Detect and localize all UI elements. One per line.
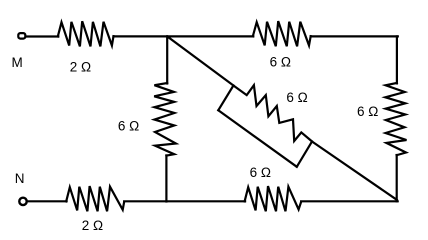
- wire node A diagonal to P1: [167, 36, 233, 85]
- wire R6 to bottom-right corner: [301, 200, 398, 202]
- svg-text:2 Ω: 2 Ω: [70, 60, 91, 75]
- resistor R2 2ohm bottom-left: [66, 186, 124, 211]
- wire node A down to R4: [166, 36, 168, 83]
- svg-text:M: M: [12, 55, 23, 70]
- wire R2 to node B and on to R6: [124, 200, 245, 202]
- svg-text:6 Ω: 6 Ω: [118, 118, 139, 133]
- svg-text:N: N: [15, 171, 25, 186]
- svg-text:6 Ω: 6 Ω: [286, 90, 307, 105]
- wire stub P4 to P3: [297, 142, 312, 167]
- resistor R5 6ohm diagonal: [233, 85, 312, 141]
- resistor R3 6ohm top: [253, 21, 311, 46]
- resistor R6 6ohm bottom: [245, 186, 302, 211]
- wire P2 to P4 lower diagonal: [218, 110, 296, 167]
- wire stub P1 to P2: [218, 86, 233, 111]
- wire R7 to bottom-right corner: [396, 155, 398, 201]
- terminal N: [19, 198, 26, 205]
- wire R3 to top-right corner: [311, 35, 398, 37]
- svg-text:6 Ω: 6 Ω: [270, 55, 291, 70]
- wire N to R2: [28, 200, 67, 202]
- svg-text:2 Ω: 2 Ω: [82, 218, 103, 233]
- svg-text:6 Ω: 6 Ω: [250, 165, 271, 180]
- resistor R4 6ohm middle vertical: [154, 83, 176, 156]
- wire R1 to node A and on to R3: [114, 35, 254, 37]
- terminal M: [18, 33, 25, 39]
- wire P3 to bottom-right corner: [312, 142, 397, 200]
- svg-text:6 Ω: 6 Ω: [357, 104, 378, 119]
- wire M to R1: [27, 35, 59, 37]
- wire right side down to R7: [396, 36, 398, 83]
- wire R4 down to node B: [165, 155, 167, 201]
- resistor R7 6ohm right vertical: [385, 83, 406, 155]
- resistor R1 2ohm top-left: [58, 21, 114, 46]
